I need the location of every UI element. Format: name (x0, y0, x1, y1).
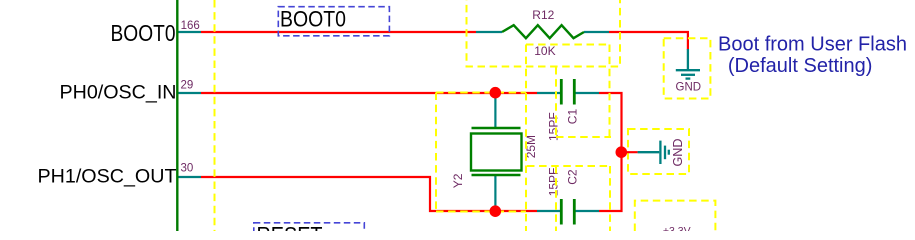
svg-text:GND: GND (676, 80, 702, 94)
svg-text:BOOT0: BOOT0 (280, 7, 346, 32)
svg-text:GND: GND (670, 139, 685, 167)
svg-text:10K: 10K (534, 44, 555, 58)
svg-text:Boot from User Flash: Boot from User Flash (718, 34, 907, 56)
svg-text:C2: C2 (565, 169, 579, 185)
svg-text:166: 166 (181, 20, 200, 32)
svg-text:15PF: 15PF (547, 168, 561, 197)
svg-text:+3.3V: +3.3V (663, 225, 691, 231)
svg-text:(Default Setting): (Default Setting) (728, 55, 873, 77)
svg-text:PH0/OSC_IN: PH0/OSC_IN (60, 83, 177, 104)
svg-text:R12: R12 (532, 8, 554, 22)
svg-text:30: 30 (181, 162, 194, 174)
svg-text:PH1/OSC_OUT: PH1/OSC_OUT (38, 167, 177, 188)
svg-text:BOOT0: BOOT0 (111, 20, 176, 46)
svg-text:29: 29 (181, 79, 194, 91)
svg-text:RESET: RESET (257, 222, 323, 231)
svg-text:C1: C1 (565, 109, 579, 125)
svg-text:Y2: Y2 (451, 173, 465, 188)
